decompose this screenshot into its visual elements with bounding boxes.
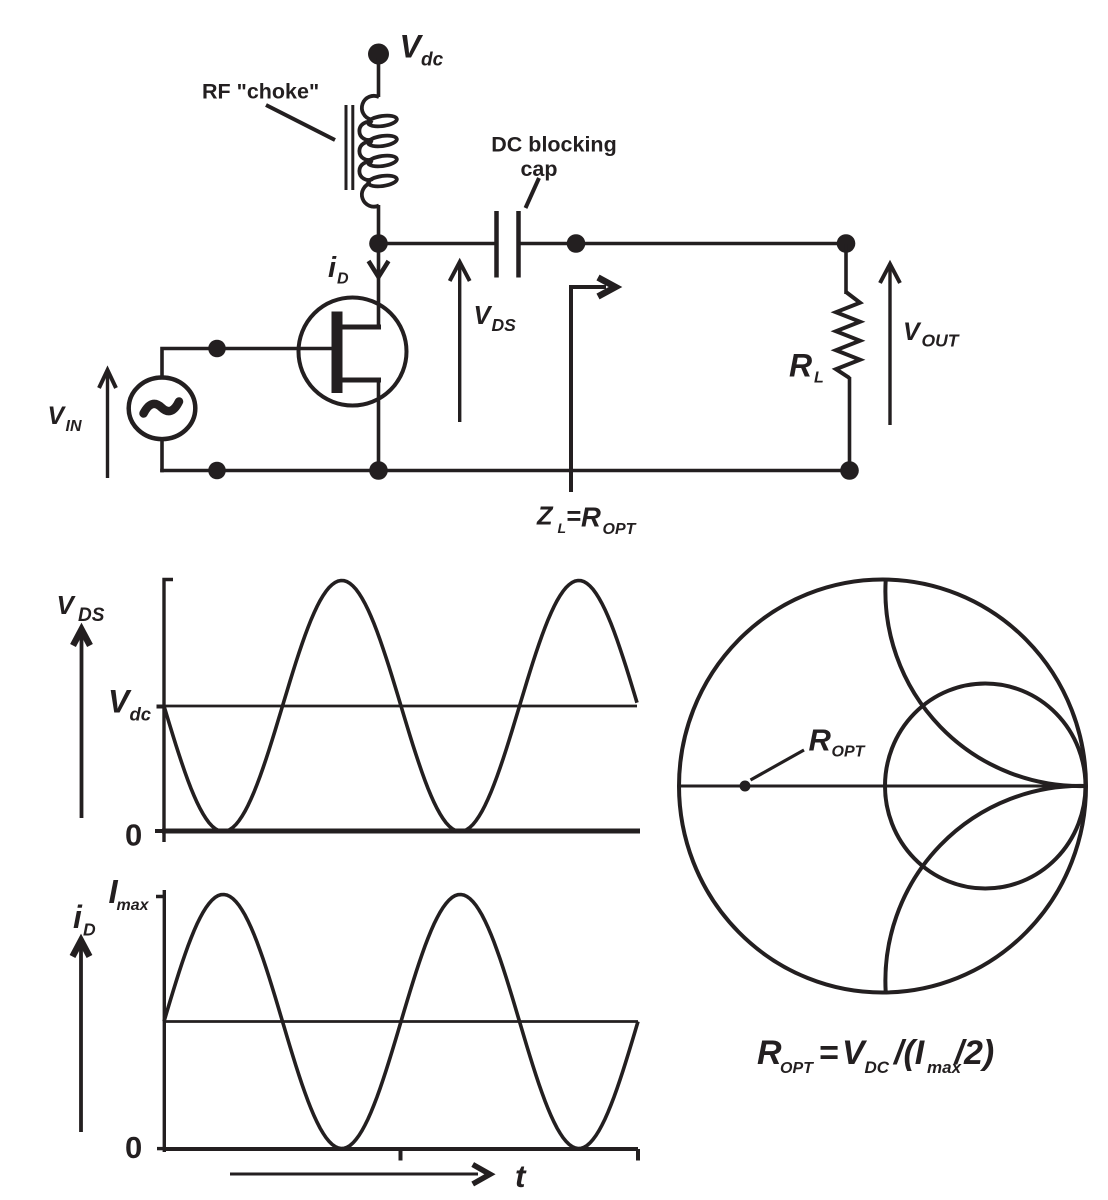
svg-text:OPT: OPT xyxy=(603,521,637,538)
svg-text:i: i xyxy=(328,252,337,284)
wire choke bottom to drain node xyxy=(377,205,381,244)
source VIN circle xyxy=(129,378,196,440)
svg-text:/(I: /(I xyxy=(892,1034,926,1072)
svg-text:0: 0 xyxy=(125,1130,142,1165)
node source bottom xyxy=(369,461,388,480)
svg-text:IN: IN xyxy=(66,418,82,435)
smith chart r=1 circle xyxy=(885,684,1086,889)
VDS sine waveform xyxy=(164,581,637,832)
VDS plot Vdc tick xyxy=(157,705,165,709)
svg-text:R: R xyxy=(789,348,812,384)
svg-text:V: V xyxy=(903,318,922,346)
svg-text:OPT: OPT xyxy=(832,744,866,761)
node Vdc supply terminal xyxy=(368,44,389,65)
arrow VOUT xyxy=(888,265,891,425)
node gate rail xyxy=(208,340,226,358)
arrow iD plot axis xyxy=(79,944,83,1132)
iD plot x-axis zero line xyxy=(164,1149,638,1161)
svg-text:L: L xyxy=(558,520,567,536)
wire Vdc terminal to choke top xyxy=(377,58,381,97)
wire source bottom to ground rail xyxy=(160,440,164,473)
svg-text:DS: DS xyxy=(78,605,105,626)
svg-text:max: max xyxy=(117,897,150,914)
wire bottom rail xyxy=(160,469,849,473)
leader line ROPT xyxy=(751,750,805,780)
inductor core bars xyxy=(345,105,348,190)
svg-text:V: V xyxy=(108,684,132,720)
arrow VIN xyxy=(106,371,109,478)
svg-text:RF "choke": RF "choke" xyxy=(202,80,319,104)
resistor RL zigzag xyxy=(836,292,860,378)
smith chart x=-1 arc xyxy=(885,786,1085,992)
svg-text:D: D xyxy=(83,920,96,940)
iD plot bias level line xyxy=(164,1020,638,1023)
svg-text:DC blocking: DC blocking xyxy=(491,133,616,157)
svg-text:DS: DS xyxy=(492,315,517,335)
svg-text:L: L xyxy=(814,370,824,387)
iD plot zero tick xyxy=(157,1147,164,1150)
svg-text:/2): /2) xyxy=(953,1034,995,1072)
svg-text:V: V xyxy=(400,29,424,65)
VDS plot zero tick xyxy=(155,829,164,833)
svg-text:D: D xyxy=(337,271,349,288)
inductor L1 RF choke coil xyxy=(359,96,397,207)
transistor Q1 FET body xyxy=(299,298,407,406)
svg-text:t: t xyxy=(515,1158,527,1194)
svg-text:dc: dc xyxy=(421,50,444,71)
capacitor C1 DC blocking left plate xyxy=(494,211,499,278)
svg-text:DC: DC xyxy=(865,1058,890,1077)
VDS plot y-axis xyxy=(164,580,173,843)
svg-text:V: V xyxy=(474,302,493,330)
capacitor C1 DC blocking right plate xyxy=(516,211,521,278)
svg-text:R: R xyxy=(757,1034,782,1072)
svg-text:0: 0 xyxy=(125,818,142,853)
svg-text:Z: Z xyxy=(536,503,554,531)
iD plot y-axis xyxy=(156,890,164,1152)
svg-text:V: V xyxy=(48,402,67,430)
wire source vertical xyxy=(377,380,381,471)
arrow VDS plot axis xyxy=(80,633,84,818)
wire source top to gate rail xyxy=(162,349,332,378)
source tilde symbol xyxy=(144,402,180,414)
svg-text:=: = xyxy=(819,1034,839,1072)
node ROPT point xyxy=(740,781,751,792)
wire drain node down to drain lead xyxy=(377,244,381,328)
VDS plot x-axis zero line xyxy=(162,829,640,834)
wire output node down to resistor xyxy=(844,244,848,295)
svg-text:i: i xyxy=(73,899,83,935)
VDS plot Vdc level line xyxy=(164,705,637,708)
wire resistor to bottom node xyxy=(848,377,852,471)
transistor gate bar xyxy=(332,312,343,394)
svg-text:V: V xyxy=(57,590,77,620)
smith chart x=+1 arc xyxy=(885,580,1085,786)
node output bottom xyxy=(840,461,859,480)
svg-text:=: = xyxy=(566,503,581,531)
transistor drain lead xyxy=(342,325,381,330)
transistor source lead xyxy=(342,378,381,383)
svg-text:dc: dc xyxy=(130,704,152,725)
node output top xyxy=(837,234,856,253)
wire top rail drain to cap xyxy=(379,242,495,246)
svg-text:cap: cap xyxy=(520,157,557,181)
node drain junction xyxy=(369,234,388,253)
leader line RF choke label xyxy=(266,105,335,140)
smith chart horizontal axis xyxy=(678,785,1087,788)
smith chart outer circle xyxy=(679,580,1086,993)
svg-text:R: R xyxy=(809,723,832,758)
arrow ZL looking toward load xyxy=(571,287,606,492)
iD sine waveform xyxy=(164,895,638,1149)
svg-text:OUT: OUT xyxy=(922,331,960,351)
arrow t axis xyxy=(230,1173,478,1176)
current arrowhead iD on drain wire xyxy=(369,261,389,277)
svg-text:OPT: OPT xyxy=(780,1060,814,1077)
svg-text:R: R xyxy=(581,502,601,533)
node bottom left xyxy=(208,462,226,480)
leader line cap label xyxy=(526,178,540,208)
arrow VDS measurement xyxy=(458,263,461,422)
node after cap xyxy=(567,234,586,253)
wire cap to output node xyxy=(521,242,847,246)
